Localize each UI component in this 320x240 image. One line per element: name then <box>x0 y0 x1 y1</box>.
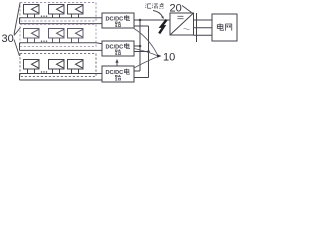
PV panel PV3-3 <box>68 60 84 70</box>
phase wire 3 <box>194 34 213 36</box>
group 2 return wire <box>20 49 103 51</box>
node B junction dot <box>139 45 142 48</box>
group 2 panel legs <box>28 38 79 43</box>
PV panel PV1-1 <box>24 5 40 15</box>
group 1 panel legs <box>28 14 79 18</box>
group 1 return wire <box>20 23 103 25</box>
svg-text:DC/DC: DC/DC <box>106 70 124 76</box>
node C junction dot <box>147 50 150 53</box>
PV string group 3 dashed box <box>20 54 96 77</box>
PV panel PV2-1 <box>24 29 40 39</box>
grid box (dian wang) <box>212 14 237 41</box>
label 30 leader to group 3 <box>14 40 20 57</box>
U1 lower output wire <box>134 25 149 27</box>
PV string group 1 dashed box <box>20 3 96 22</box>
group 3 left drop wire <box>19 74 21 81</box>
bus B vertical wire <box>148 26 150 78</box>
inverter box U4 <box>170 13 194 35</box>
group 2 left drop wire <box>19 43 21 51</box>
PV panel PV2-2 <box>49 29 65 39</box>
PV panel PV3-2 <box>49 60 65 70</box>
group 3 ellipsis <box>41 71 47 72</box>
label 10 arrowhead <box>157 54 162 58</box>
bus A vertical wire <box>139 20 141 71</box>
label 20 leader <box>182 6 192 13</box>
PV panel PV1-3 <box>68 5 84 15</box>
label confluence point (hui liu dian) <box>145 3 164 9</box>
group 1 series wire <box>20 17 103 19</box>
PV panel PV1-2 <box>49 5 65 15</box>
main DC bus wire to inverter <box>134 19 170 21</box>
svg-text:DC/DC: DC/DC <box>106 45 124 51</box>
label 10 leader from U3 <box>134 57 158 68</box>
DC/DC converter box U1 <box>102 13 134 28</box>
svg-text:30: 30 <box>2 33 14 45</box>
group 3 return wire <box>20 79 103 81</box>
label 30 leader to group 2 <box>14 28 21 36</box>
DC/DC converter box U2 <box>102 41 134 56</box>
label 20 <box>170 3 182 15</box>
up arrow between U2 and U3 <box>115 59 118 66</box>
group 2 series wire <box>20 43 103 44</box>
lightning bolt fault mark <box>159 20 166 34</box>
phase wire 1 <box>194 19 213 21</box>
label 30 <box>2 33 14 45</box>
DC/DC converter box U3 <box>102 66 134 82</box>
PV panel PV3-1 <box>24 60 40 70</box>
group 3 series wire <box>20 73 103 75</box>
PV string group 2 dashed box <box>20 25 96 47</box>
group 1 left drop wire <box>19 18 21 24</box>
label 10 <box>163 52 175 64</box>
confluence point leader arrow <box>153 11 163 18</box>
svg-text:10: 10 <box>163 52 175 64</box>
PV panel PV2-3 <box>68 29 84 39</box>
label 10 leader from U2 <box>134 49 158 56</box>
group 2 ellipsis <box>41 41 47 42</box>
U3 lower output wire <box>134 77 149 79</box>
U3 top output wire <box>134 70 140 72</box>
svg-text:DC/DC: DC/DC <box>106 17 124 23</box>
group 3 panel legs <box>28 69 79 74</box>
label 30 leader to group 1 <box>14 3 20 35</box>
node A junction dot <box>139 19 142 22</box>
three-phase output bus vertical <box>196 13 198 42</box>
U2 top output wire <box>134 45 140 47</box>
group 1 ellipsis <box>41 16 47 17</box>
label 10 leader from U1 <box>134 29 158 55</box>
phase wire 2 <box>194 27 213 29</box>
U2 lower output wire <box>134 51 149 53</box>
